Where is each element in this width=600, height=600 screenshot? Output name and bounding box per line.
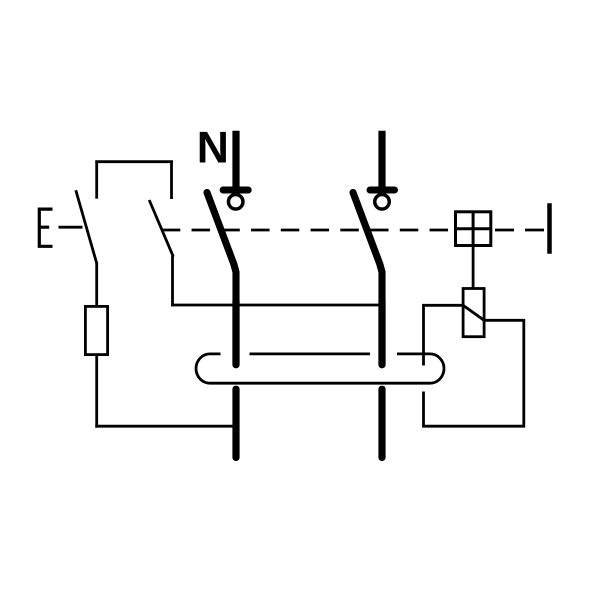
trip linkage (dashed) [162,229,448,232]
wire bottom horizontal to N pole [95,425,236,428]
trip linkage dashes right of test button [495,229,544,232]
toroid bottom edge [210,382,430,385]
pole N supply conductor (top) [232,131,239,190]
pole L conductor through toroid [378,300,385,365]
resistor R (test resistor) [85,306,107,354]
wire S1 to resistor [95,262,98,306]
toroid right arc [430,354,444,383]
pole L terminal circle [375,195,390,210]
wire test button to trip coil [472,246,475,289]
pole N terminal clamp bar [223,187,248,194]
switch S2 blade [149,200,173,257]
pole L conductor below toroid [378,389,385,457]
current transformer toroid W1 top edge [210,352,430,355]
wire E to switch S1 blade [59,226,83,229]
pole L terminal clamp bar [370,187,395,194]
pole N conductor below toroid [232,389,239,457]
trip coil diagonal [463,305,484,320]
wire sense loop below toroid [424,320,524,426]
trip coil K box [463,289,484,337]
pole N terminal circle [228,195,243,210]
switch S2 fixed contact wire [170,161,173,199]
handle bar (toggle) [547,203,552,254]
wire horizontal to L pole [171,304,382,307]
pole N switch blade (bold) [207,193,236,365]
pole L supply conductor (top) [378,131,385,190]
terminal E (test actuator symbol) [38,208,53,248]
wire S2 down [171,256,174,307]
wire trip coil to sense loop (left) [424,305,464,365]
switch S1 fixed contact wire [95,161,98,199]
wire resistor to bottom [95,355,98,428]
test button TB (crossed square) [456,212,491,246]
pole N conductor through toroid [232,300,239,365]
test button cross [455,211,492,246]
wire top bracket S1-S2 [95,160,173,163]
switch S1 blade [76,190,97,263]
svg-text:N: N [197,124,229,173]
pole L switch blade (bold) [353,193,382,365]
toroid left arc [196,354,210,383]
